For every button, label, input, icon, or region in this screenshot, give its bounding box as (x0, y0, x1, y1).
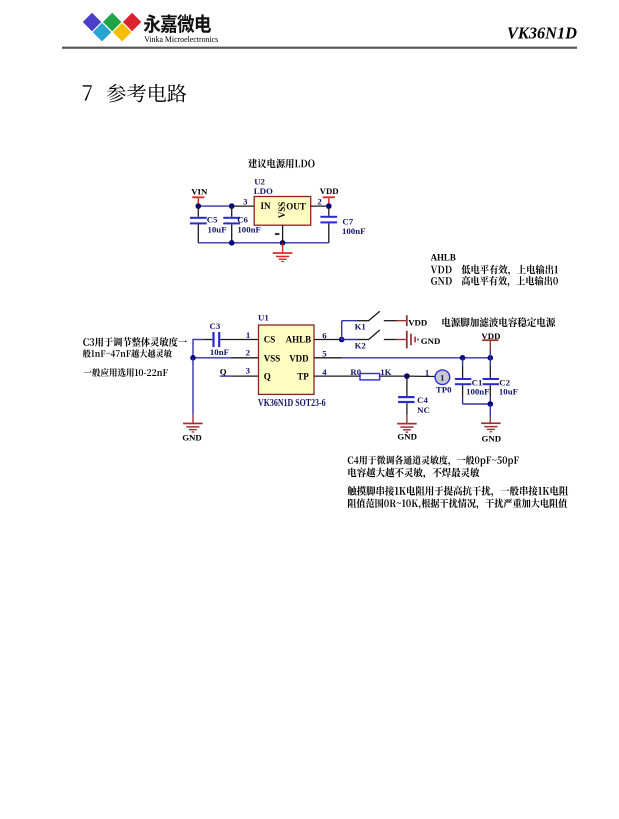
pin 6 wire (314, 339, 342, 341)
note GND legend (431, 276, 558, 287)
wire Q net (220, 375, 232, 377)
svg-text:OUT: OUT (286, 202, 306, 212)
testpoint TP0 (435, 370, 450, 385)
capacitor C6 (231, 206, 233, 217)
svg-text:GND: GND (421, 336, 441, 346)
capacitor C1 (462, 358, 464, 366)
wire CS corner (193, 339, 203, 341)
svg-text:C5: C5 (207, 215, 218, 225)
svg-text:6: 6 (322, 330, 327, 340)
svg-text:100nF: 100nF (342, 226, 365, 236)
wire to TP0 (407, 375, 436, 377)
svg-text:10uF: 10uF (208, 224, 227, 234)
wire R0 to TP node (380, 375, 407, 377)
power flag VDD main (482, 339, 498, 341)
annotation R line2 (348, 498, 567, 509)
svg-text:IN: IN (261, 201, 272, 211)
U2 VSS pin (282, 225, 284, 243)
svg-text:4: 4 (322, 367, 327, 377)
svg-text:3: 3 (246, 365, 251, 375)
svg-text:1: 1 (440, 373, 444, 383)
svg-text:C4: C4 (417, 395, 428, 405)
power flag VDD K1 (397, 320, 406, 322)
svg-text:VK36N1D SOT23-6: VK36N1D SOT23-6 (258, 398, 326, 409)
capacitor C3 (203, 339, 213, 341)
wire to K2 (342, 339, 358, 341)
node C6 junction (229, 203, 235, 209)
svg-text:100nF: 100nF (237, 224, 260, 234)
ground below C2 (489, 404, 491, 417)
svg-text:VDD: VDD (289, 354, 309, 364)
node C2 junction (488, 355, 494, 361)
wire to K1 (341, 321, 343, 341)
annotation R line1 (348, 486, 569, 497)
svg-text:VDD: VDD (320, 186, 339, 196)
node K junction (339, 337, 345, 343)
ground below C4 (406, 414, 408, 423)
svg-text:AHLB: AHLB (431, 252, 456, 262)
wire ground bus (198, 242, 328, 244)
svg-text:Q: Q (220, 367, 227, 377)
svg-text:2: 2 (317, 196, 322, 206)
note power cap (442, 317, 555, 327)
svg-text:LDO: LDO (254, 186, 273, 196)
node CS gnd junction (190, 355, 196, 361)
svg-text:GND: GND (182, 432, 202, 442)
node TP junction (404, 373, 410, 379)
LDO note 建议电源用LDO (248, 159, 314, 169)
svg-text:C3: C3 (210, 321, 221, 331)
wire VSS net (193, 357, 231, 359)
svg-text:U2: U2 (254, 177, 265, 187)
wire C1 C2 bottom (463, 403, 491, 405)
header rule (62, 47, 577, 49)
svg-text:GND: GND (482, 434, 502, 444)
svg-text:TP0: TP0 (436, 384, 452, 394)
svg-text:VSS: VSS (264, 354, 281, 364)
annotation C3 line3 (84, 368, 168, 377)
ground below U2 (282, 243, 284, 252)
node VSS gnd junction (280, 240, 286, 246)
svg-text:Vinka Microelectronics: Vinka Microelectronics (144, 35, 218, 44)
svg-text:3: 3 (243, 196, 248, 206)
ground flag K2 (397, 339, 406, 341)
svg-text:NC: NC (417, 405, 430, 415)
note VDD legend (431, 265, 558, 276)
power flag VDD out (323, 196, 335, 198)
svg-text:1: 1 (425, 367, 429, 377)
annotation C4 line2 (348, 468, 479, 479)
svg-text:K2: K2 (355, 340, 367, 350)
node VDD junction (326, 203, 332, 209)
capacitor C4 (406, 376, 408, 396)
svg-text:1: 1 (246, 330, 250, 340)
switch K2 (357, 339, 368, 341)
pin 2 wire (311, 205, 329, 207)
wire to GND (192, 358, 194, 415)
svg-text:VDD: VDD (481, 331, 500, 341)
capacitor C5 (197, 206, 199, 217)
pin 5 wire (314, 357, 342, 359)
annotation C3 line2 (83, 349, 172, 357)
svg-text:C6: C6 (237, 215, 248, 225)
ground GND left (192, 415, 194, 423)
pin 3 wire (232, 205, 255, 207)
logo diamonds (82, 12, 142, 42)
svg-text:C7: C7 (342, 216, 353, 226)
node C1 junction (460, 355, 466, 361)
svg-text:U1: U1 (258, 312, 269, 322)
svg-text:100nF: 100nF (466, 387, 489, 397)
wire VIN to C6 node (198, 205, 231, 207)
svg-text:10uF: 10uF (499, 387, 518, 397)
svg-text:CS: CS (264, 335, 276, 345)
svg-text:10nF: 10nF (210, 347, 229, 357)
svg-text:K1: K1 (355, 322, 366, 332)
svg-text:VK36N1D: VK36N1D (507, 23, 577, 42)
resistor R0 (360, 374, 380, 380)
svg-text:TP: TP (297, 372, 309, 382)
svg-text:VDD: VDD (408, 317, 427, 327)
heading 参考电路 (107, 84, 187, 103)
capacitor C7 (328, 206, 330, 216)
annotation C4 line1 (348, 455, 519, 466)
capacitor C2 (489, 358, 491, 366)
node bottom junction (488, 401, 494, 407)
svg-text:5: 5 (322, 349, 327, 359)
U2 VSS pin number 1 (275, 233, 280, 235)
svg-text:Q: Q (264, 372, 271, 382)
node VIN junction (196, 203, 202, 209)
svg-text:AHLB: AHLB (286, 335, 312, 345)
heading 7 (83, 85, 92, 100)
node C6 gnd junction (229, 240, 235, 246)
logo Chinese 永嘉微电 (144, 14, 211, 33)
svg-text:VIN: VIN (191, 187, 208, 197)
pin 4 wire (314, 375, 360, 377)
IC U1 body (259, 325, 315, 394)
annotation C3 line1 (83, 337, 187, 347)
svg-text:GND: GND (397, 432, 417, 442)
wire VDD net (342, 357, 490, 359)
svg-text:2: 2 (246, 347, 251, 357)
power flag VIN (192, 196, 204, 198)
switch K1 (357, 320, 368, 322)
regulator U2 body (254, 197, 311, 226)
